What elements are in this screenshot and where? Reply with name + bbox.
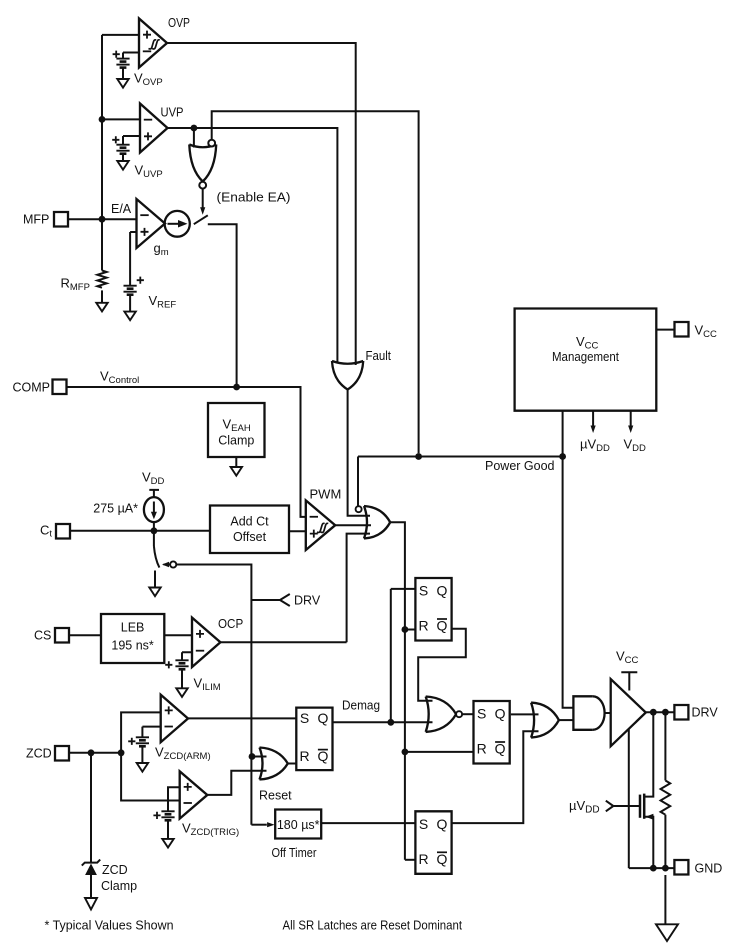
svg-text:180 µs*: 180 µs*: [277, 818, 320, 832]
svg-text:195 ns*: 195 ns*: [111, 639, 154, 653]
svg-text:Add Ct: Add Ct: [230, 515, 269, 529]
svg-text:PWM: PWM: [310, 487, 342, 502]
svg-text:R: R: [477, 741, 487, 757]
svg-text:UVP: UVP: [161, 105, 184, 120]
svg-text:Q: Q: [495, 741, 506, 757]
svg-text:CS: CS: [34, 629, 51, 643]
svg-text:Q: Q: [437, 618, 448, 634]
svg-text:Q: Q: [317, 748, 328, 764]
svg-text:R: R: [419, 618, 429, 634]
svg-text:S: S: [477, 706, 486, 722]
svg-text:R: R: [299, 748, 309, 764]
svg-text:GND: GND: [695, 862, 723, 876]
svg-text:OCP: OCP: [218, 616, 243, 631]
svg-text:(Enable EA): (Enable EA): [217, 191, 291, 205]
svg-text:Offset: Offset: [233, 530, 267, 544]
svg-text:All SR Latches are Reset Domin: All SR Latches are Reset Dominant: [283, 919, 463, 933]
svg-text:DRV: DRV: [294, 594, 321, 608]
svg-text:Off Timer: Off Timer: [272, 846, 317, 860]
svg-text:COMP: COMP: [13, 381, 51, 395]
svg-text:Clamp: Clamp: [101, 879, 137, 893]
svg-text:Q: Q: [437, 851, 448, 867]
svg-text:Management: Management: [552, 350, 619, 364]
svg-text:Q: Q: [317, 710, 328, 726]
svg-text:ZCD: ZCD: [26, 747, 52, 761]
svg-text:MFP: MFP: [23, 213, 49, 227]
svg-text:Q: Q: [437, 816, 448, 832]
svg-text:OVP: OVP: [168, 15, 190, 30]
svg-text:S: S: [300, 710, 309, 726]
svg-text:E/A: E/A: [111, 202, 132, 216]
svg-text:Q: Q: [495, 706, 506, 722]
svg-text:275 µA*: 275 µA*: [93, 502, 138, 516]
svg-text:Reset: Reset: [259, 789, 292, 803]
svg-text:S: S: [419, 583, 428, 599]
svg-text:S: S: [419, 816, 428, 832]
svg-text:Demag: Demag: [342, 699, 380, 713]
svg-text:Fault: Fault: [366, 349, 392, 363]
svg-text:ZCD: ZCD: [102, 863, 128, 877]
svg-text:R: R: [419, 851, 429, 867]
svg-text:Q: Q: [437, 583, 448, 599]
svg-text:Power Good: Power Good: [485, 459, 555, 473]
svg-text:* Typical Values Shown: * Typical Values Shown: [45, 919, 174, 933]
svg-text:Clamp: Clamp: [218, 434, 254, 448]
svg-text:DRV: DRV: [692, 706, 719, 720]
svg-text:LEB: LEB: [121, 621, 145, 635]
